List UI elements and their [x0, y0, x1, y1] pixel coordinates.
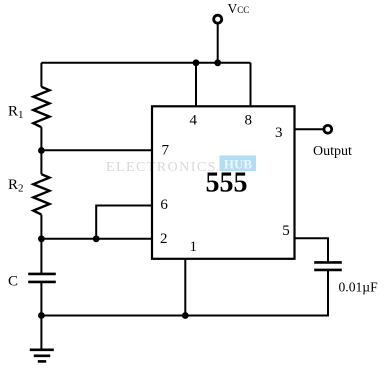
svg-text:8: 8	[244, 113, 252, 129]
svg-text:1: 1	[189, 239, 197, 255]
wire R1 to node	[40, 127, 42, 151]
wire pin 7 horizontal	[41, 149, 152, 151]
node junction dot on pin2 wire	[93, 235, 100, 242]
wire left rail top segment	[40, 63, 42, 87]
capacitor C	[28, 274, 56, 282]
svg-text:C: C	[8, 274, 18, 290]
op-amp U1 555 IC box	[152, 106, 295, 258]
wire C to bottom rail	[40, 282, 42, 316]
wire Vcc down to top rail	[217, 24, 219, 63]
wire pin 6 step	[96, 206, 152, 239]
svg-text:7: 7	[162, 143, 170, 159]
Vcc terminal circle	[214, 15, 222, 23]
resistor R2	[33, 174, 49, 214]
wire to ground	[40, 316, 42, 350]
resistor R1	[33, 87, 49, 127]
watermark HUB box	[220, 156, 257, 172]
wire pin 2 horizontal	[41, 238, 152, 240]
ground	[30, 350, 54, 362]
wire bottom rail	[41, 315, 328, 317]
wire pin 3 output	[295, 128, 324, 130]
svg-text:4: 4	[190, 113, 198, 129]
capacitor C2 0.01uF	[314, 262, 342, 270]
wire pin 4 vertical	[195, 63, 197, 107]
wire R2 to node	[40, 215, 42, 239]
wire pin 5 to capacitor	[295, 238, 329, 262]
node bottom-left junction dot	[38, 312, 45, 319]
node junction dot at Vcc	[214, 59, 221, 66]
svg-text:0.01µF: 0.01µF	[339, 280, 379, 295]
svg-text:Output: Output	[313, 144, 352, 159]
node R1/R2 junction dot	[38, 147, 45, 154]
svg-text:2: 2	[160, 231, 168, 247]
wire node to R2	[40, 151, 42, 175]
node junction dot left of Vcc	[193, 59, 200, 66]
node pin1/bottom rail junction dot	[182, 312, 189, 319]
wire node to capacitor C	[40, 239, 42, 273]
svg-text:5: 5	[282, 223, 290, 239]
svg-text:3: 3	[275, 125, 283, 141]
svg-text:555: 555	[206, 167, 248, 198]
output terminal circle	[324, 125, 332, 133]
node R2/C/pin2 junction dot	[38, 235, 45, 242]
wire top rail	[41, 62, 250, 64]
wire pin 1 vertical	[184, 259, 186, 316]
svg-text:6: 6	[160, 197, 168, 213]
wire top rail corner down to pin 8	[250, 63, 252, 107]
svg-text:ELECTRONICS: ELECTRONICS	[106, 160, 217, 175]
wire capacitor to bottom rail	[327, 270, 329, 317]
